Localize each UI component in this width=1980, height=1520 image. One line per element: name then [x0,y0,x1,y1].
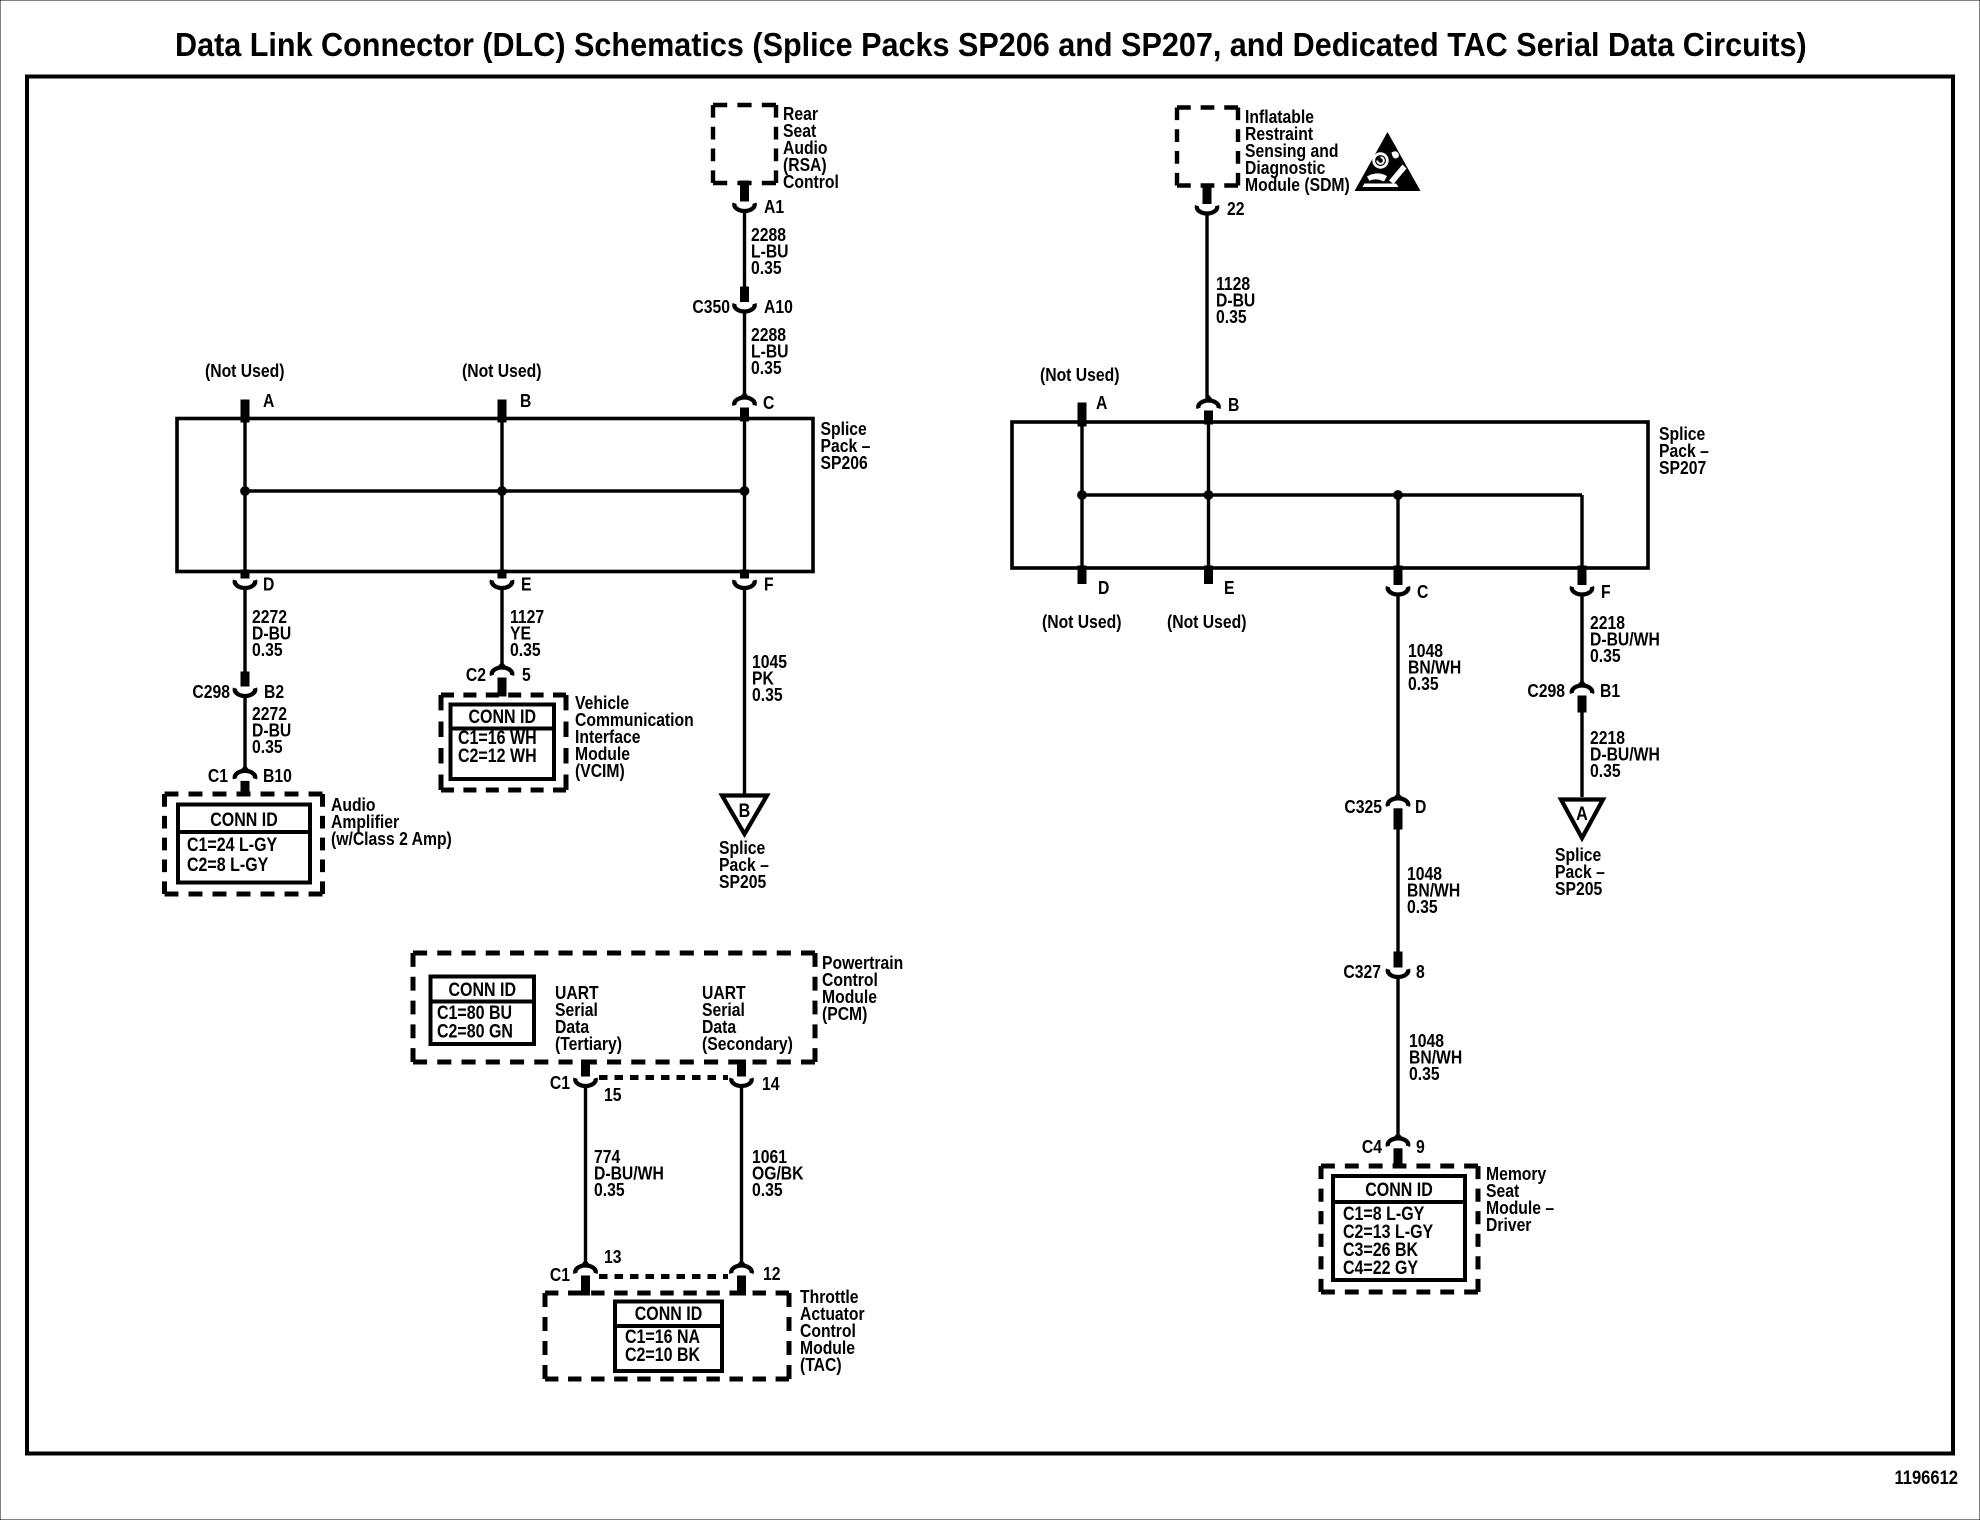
svg-text:C2=12 WH: C2=12 WH [458,745,537,767]
wire 2288 L-BU 0.35 (C350 to SP206 cavity C) [745,312,789,394]
terminal E (Not Used) at SP207 [1167,566,1246,632]
splice pack SP206 box [177,419,813,572]
svg-text:B: B [1228,394,1239,416]
svg-text:CONN ID: CONN ID [635,1303,703,1325]
splice pack SP207 box [1012,422,1648,568]
terminal B (Not Used) at SP206 [462,360,541,422]
junction at SP207 bus / wire B [1204,491,1213,500]
wire 1048 BN/WH 0.35 (SP207 C to C325) [1398,595,1461,795]
svg-text:C2=10 BK: C2=10 BK [625,1344,700,1366]
svg-text:(TAC): (TAC) [800,1354,842,1376]
svg-text:A: A [1096,392,1107,414]
wire 774 D-BU/WH 0.35 (PCM 15 to TAC 13) [586,1087,664,1263]
terminal A (Not Used) at SP206 [205,360,284,422]
svg-text:(Not Used): (Not Used) [1042,611,1121,633]
wire 1048 BN/WH 0.35 (C325 to C327) [1398,829,1460,952]
svg-text:Driver: Driver [1486,1214,1532,1236]
svg-text:Control: Control [783,171,839,193]
svg-text:CONN ID: CONN ID [448,979,516,1001]
svg-text:B: B [520,390,531,412]
wire 1048 BN/WH 0.35 (C327 to memory seat module) [1398,978,1462,1136]
wire 2272 D-BU 0.35 (C298 to audio amplifier) [245,697,291,769]
connector D at SP206 [235,570,275,595]
svg-text:(Not Used): (Not Used) [462,360,541,382]
svg-text:0.35: 0.35 [1407,896,1438,918]
connector A1 at RSA [734,181,784,217]
module Powertrain Control Module (PCM) [413,953,815,1062]
drawing number 1196612 [1894,1467,1958,1489]
SP206 internal wire B [500,420,503,571]
svg-text:(VCIM): (VCIM) [575,760,625,782]
module RSA - Rear Seat Audio Control (dashed box) [713,105,776,183]
connector E at SP206 [492,570,532,595]
splice pack SP205 triangle B [722,796,767,835]
svg-text:C2=80 GN: C2=80 GN [437,1020,513,1042]
svg-text:0.35: 0.35 [252,736,283,758]
svg-text:(w/Class 2 Amp): (w/Class 2 Amp) [331,828,452,850]
module SDM - Inflatable Restraint Sensing and Diagnostic Module (dashed box) [1177,108,1238,186]
module Vehicle Communication Interface Module (VCIM) [441,692,694,790]
SP206 internal wire C-F [743,420,746,571]
svg-text:A: A [263,390,274,412]
svg-text:C325: C325 [1344,796,1382,818]
svg-text:0.35: 0.35 [510,639,541,661]
junction at SP207 bus / wire A [1078,491,1087,500]
svg-text:B2: B2 [264,681,284,703]
wire 2288 L-BU 0.35 (RSA A1 to C350) [745,212,789,290]
junction at SP207 bus / wire C [1394,491,1403,500]
connector pin 12 at TAC [731,1262,780,1296]
svg-text:CONN ID: CONN ID [1365,1179,1433,1201]
svg-text:15: 15 [604,1084,622,1106]
svg-text:D: D [1098,577,1109,599]
label Splice Pack - SP205 (right) [1555,844,1605,900]
connector C298 pin B1 [1527,680,1620,712]
label UART Serial Data (Secondary) [702,982,793,1055]
svg-text:14: 14 [762,1073,780,1095]
svg-text:C350: C350 [692,296,730,318]
SP206 internal wire A [243,420,246,571]
SP207 internal wire A [1080,424,1083,566]
svg-text:SP205: SP205 [1555,878,1603,900]
svg-text:0.35: 0.35 [752,1179,783,1201]
label Splice Pack - SP205 (left) [719,837,769,893]
module Throttle Actuator Control Module (TAC) [545,1286,865,1379]
connector F at SP206 [734,570,773,595]
connector C350 pin A10 [692,287,792,317]
svg-text:B: B [739,800,751,822]
svg-text:0.35: 0.35 [752,684,783,706]
module Memory Seat Module - Driver [1321,1163,1555,1292]
wire 2218 D-BU/WH 0.35 (SP207 F to C298) [1582,595,1660,683]
svg-text:C2: C2 [466,664,486,686]
svg-text:F: F [764,573,774,595]
svg-text:A10: A10 [764,296,793,318]
wire 1127 YE 0.35 (SP206 E to VCIM) [502,589,544,665]
connector C at splice pack SP206 [734,392,774,421]
title [175,26,1807,63]
connector C327 pin 8 [1343,952,1425,982]
svg-text:C298: C298 [1527,680,1565,702]
svg-text:C: C [763,392,774,414]
svg-text:0.35: 0.35 [751,357,782,379]
svg-text:C1: C1 [208,765,229,787]
connector C2 pin 5 at VCIM [466,664,531,697]
svg-text:CONN ID: CONN ID [210,809,278,831]
SP207 internal wire to F [1580,495,1583,566]
SRS airbag warning icon [1355,132,1421,191]
svg-text:SP207: SP207 [1659,457,1706,479]
svg-text:B1: B1 [1600,680,1621,702]
svg-text:1196612: 1196612 [1894,1467,1958,1489]
svg-text:(Not Used): (Not Used) [1040,364,1119,386]
wire 2218 D-BU/WH 0.35 (C298 to SP205) [1582,712,1660,797]
svg-text:E: E [521,573,531,595]
svg-text:SP205: SP205 [719,871,767,893]
junction at SP206 bus / wire A [241,487,250,496]
label Inflatable Restraint Sensing and Diagnostic Module (SDM) [1245,106,1350,196]
connector C1 pin 13 at TAC [550,1246,622,1295]
svg-text:C298: C298 [192,681,230,703]
terminal A (Not Used) at SP207 [1040,364,1119,426]
SP207 internal bus [1082,493,1582,496]
svg-text:F: F [1601,581,1611,603]
terminal D (Not Used) at SP207 [1042,566,1121,632]
svg-text:9: 9 [1416,1136,1425,1158]
wire 2272 D-BU 0.35 (SP206 D to C298) [245,589,291,673]
connector C298 pin B2 [192,672,284,702]
SP206 internal bus [245,489,745,492]
svg-text:CONN ID: CONN ID [468,706,536,728]
svg-text:C2=8 L-GY: C2=8 L-GY [187,854,268,876]
label Splice Pack - SP207 [1659,423,1709,479]
svg-text:D: D [263,573,274,595]
wire 1061 OG/BK 0.35 (PCM 14 to TAC 12) [742,1087,805,1263]
svg-text:(Tertiary): (Tertiary) [555,1033,622,1055]
label Rear Seat Audio (RSA) Control [783,103,839,193]
junction at SP206 bus / wire C [740,487,749,496]
connector C at SP207 [1388,566,1429,602]
svg-text:(Not Used): (Not Used) [1167,611,1246,633]
svg-text:A: A [1576,803,1588,825]
svg-text:C4=22 GY: C4=22 GY [1343,1257,1418,1279]
svg-text:12: 12 [763,1263,780,1285]
svg-text:0.35: 0.35 [751,257,782,279]
svg-text:0.35: 0.35 [1590,645,1621,667]
svg-text:SP206: SP206 [821,452,868,474]
svg-text:C1: C1 [550,1072,571,1094]
svg-text:(PCM): (PCM) [822,1003,867,1025]
svg-text:0.35: 0.35 [252,639,283,661]
svg-text:0.35: 0.35 [1408,673,1439,695]
svg-text:0.35: 0.35 [1590,760,1621,782]
svg-text:C327: C327 [1343,961,1381,983]
wire 1128 D-BU 0.35 (SDM 22 to SP207) [1207,214,1255,398]
module Audio Amplifier (w/Class 2 Amp) [165,794,452,894]
svg-text:0.35: 0.35 [594,1179,625,1201]
svg-text:B10: B10 [263,765,292,787]
connector B at splice pack SP207 [1198,394,1239,424]
connector pin 14 at PCM [731,1060,780,1094]
SP207 internal wire B [1207,424,1210,566]
svg-text:8: 8 [1416,961,1425,983]
dashed wire between PCM pins 15 and 14 [599,1075,728,1080]
label Powertrain Control Module (PCM) [822,952,903,1025]
svg-text:Data Link Connector (DLC) Sche: Data Link Connector (DLC) Schematics (Sp… [175,26,1807,63]
svg-text:D: D [1415,796,1426,818]
svg-text:0.35: 0.35 [1216,306,1247,328]
wire 1045 PK 0.35 (SP206 F to SP205) [745,589,788,795]
connector pin 22 at SDM [1197,186,1245,220]
dashed wire between TAC pins 13 and 12 [599,1274,728,1279]
connector C1 pin 15 at PCM [550,1060,622,1105]
svg-text:13: 13 [604,1246,621,1268]
connector C325 pin D [1344,794,1426,829]
svg-text:A1: A1 [764,196,785,218]
splice pack SP205 triangle A [1561,800,1603,839]
label Splice Pack - SP206 [821,418,871,474]
svg-text:C1: C1 [550,1264,571,1286]
connector C4 pin 9 at memory seat module [1362,1134,1425,1168]
svg-text:0.35: 0.35 [1409,1063,1440,1085]
connector F at SP207 [1572,566,1611,602]
svg-text:(Not Used): (Not Used) [205,360,284,382]
svg-text:5: 5 [522,664,531,686]
junction at SP206 bus / wire B [498,487,507,496]
label UART Serial Data (Tertiary) [555,982,622,1055]
svg-text:E: E [1224,577,1234,599]
svg-text:C: C [1417,581,1428,603]
svg-text:Module (SDM): Module (SDM) [1245,174,1350,196]
svg-text:C4: C4 [1362,1136,1383,1158]
svg-text:22: 22 [1227,198,1244,220]
connector C1 pin B10 at audio amplifier [208,765,292,796]
svg-text:(Secondary): (Secondary) [702,1033,793,1055]
svg-text:C1=24 L-GY: C1=24 L-GY [187,834,277,856]
SP207 internal wire to C [1396,495,1399,566]
